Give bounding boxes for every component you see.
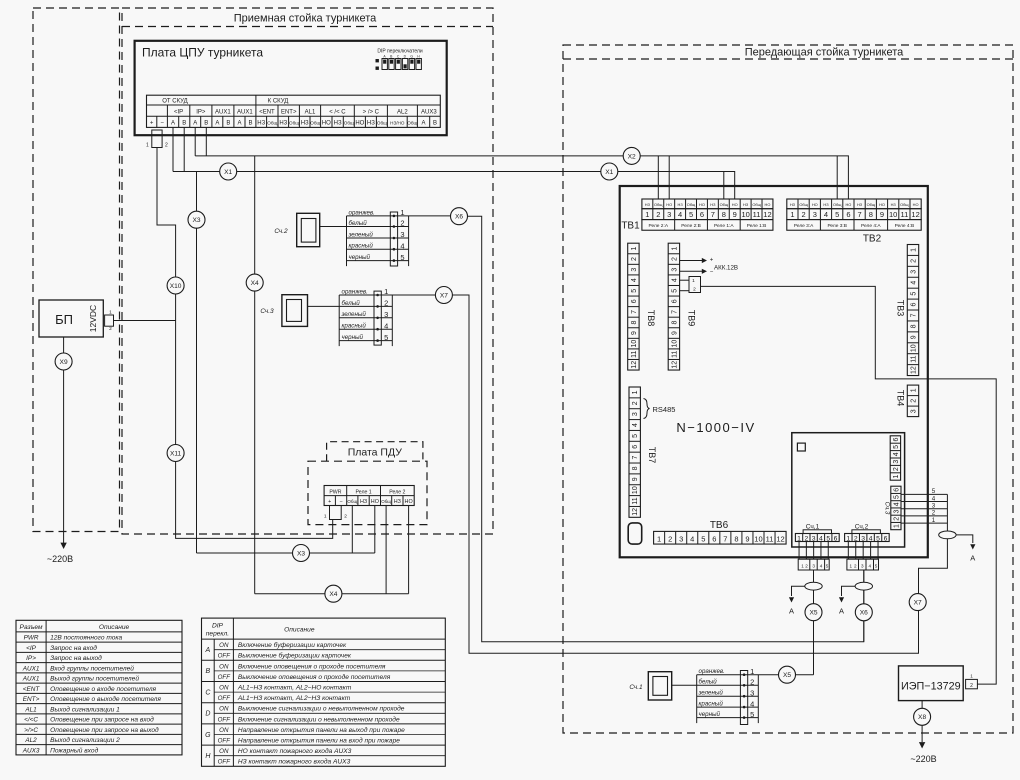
svg-text:5: 5: [826, 563, 829, 568]
svg-text:НЗ: НЗ: [857, 202, 863, 207]
svg-text:5: 5: [911, 292, 918, 296]
svg-text:НЗ: НЗ: [257, 121, 265, 127]
reader interface daughter-board inside controller: [792, 433, 905, 547]
svg-text:1: 1: [324, 514, 327, 520]
svg-text:5: 5: [893, 495, 900, 499]
svg-text:AL1−НЗ контакт, AL2−НО контакт: AL1−НЗ контакт, AL2−НО контакт: [237, 685, 352, 692]
svg-text:A: A: [205, 647, 211, 654]
svg-text:12: 12: [632, 508, 639, 516]
svg-text:Выключение оповещения о проход: Выключение оповещения о проходе посетите…: [238, 673, 391, 681]
svg-text:B: B: [433, 121, 437, 127]
wire: BP 12VDC output to power bus: [114, 320, 176, 322]
svg-text:<IP: <IP: [174, 109, 183, 115]
svg-text:НЗ: НЗ: [334, 121, 342, 127]
svg-text:5: 5: [631, 289, 638, 293]
svg-text:оранжев.: оранжев.: [699, 668, 725, 675]
reader Sch.2 body: [297, 213, 320, 246]
RS485 brace on TB7 pins 2,3: [644, 399, 650, 419]
terminal block of PDU board: [324, 486, 414, 506]
svg-text:1: 1: [400, 208, 404, 217]
svg-text:<ENT: <ENT: [259, 109, 275, 115]
svg-text:К СКУД: К СКУД: [268, 99, 289, 105]
svg-text:Х3: Х3: [297, 550, 305, 557]
wire: CPU IP> terminal A drop: [194, 127, 196, 155]
connector pins 1-2 on TB9 pins 4,5 (battery output): [680, 279, 689, 281]
svg-text:6: 6: [884, 536, 888, 543]
svg-text:9: 9: [733, 210, 737, 219]
svg-text:белый: белый: [349, 220, 368, 227]
wire: PDU relay2 NO to X4 line: [408, 506, 410, 594]
svg-text:4: 4: [869, 563, 872, 568]
svg-text:ON: ON: [219, 727, 229, 734]
svg-text:Реле 3:А: Реле 3:А: [794, 223, 814, 229]
svg-text:AL2: AL2: [24, 737, 37, 744]
svg-text:1: 1: [671, 246, 678, 250]
legend table: DIP switch descriptions: [202, 618, 446, 766]
svg-text:3: 3: [813, 210, 817, 219]
svg-text:−: −: [339, 499, 342, 505]
svg-text:Общ: Общ: [381, 499, 391, 504]
svg-text:G: G: [410, 55, 413, 59]
svg-text:НО: НО: [812, 202, 818, 207]
mains arrow ~220V (receiving side): [60, 543, 66, 549]
wire: X6 cable from reader Sch.2 to controller Sch.2 input: [468, 216, 864, 642]
cable marker X6 (reader side): [451, 208, 468, 225]
svg-text:Запрос на вход: Запрос на вход: [50, 644, 97, 652]
svg-text:DIP: DIP: [212, 623, 224, 630]
svg-text:Сч,2: Сч,2: [855, 524, 869, 531]
svg-text:4: 4: [893, 452, 900, 456]
svg-text:Сч.2: Сч.2: [274, 228, 288, 235]
svg-text:НЗ/НО: НЗ/НО: [390, 121, 405, 126]
svg-text:2: 2: [893, 467, 900, 471]
svg-text:Общ: Общ: [799, 202, 808, 207]
svg-text:Общ: Общ: [344, 121, 354, 126]
svg-text:D: D: [205, 711, 210, 718]
svg-text:12: 12: [631, 361, 638, 369]
connector pins 1-2 of BP output: [105, 315, 114, 326]
svg-text:9: 9: [745, 534, 749, 543]
wires: Sch.1 strip pins 1-5 down to cable connector: [798, 542, 800, 560]
enclosure: Plata PDU (dashed): [308, 461, 427, 524]
svg-text:OFF: OFF: [218, 674, 232, 681]
wire: PDU relay2 Obshch to X4 line: [385, 506, 387, 594]
svg-text:зеленый: зеленый: [341, 311, 367, 318]
svg-text:4: 4: [750, 699, 754, 708]
svg-text:11: 11: [671, 350, 678, 357]
svg-text:1: 1: [109, 310, 112, 316]
cable marker X10: [167, 277, 184, 294]
svg-text:Сч,1: Сч,1: [806, 524, 820, 531]
svg-text:A: A: [193, 121, 197, 127]
svg-text:1: 1: [657, 534, 661, 543]
svg-text:Общ: Общ: [407, 121, 417, 126]
svg-text:Х2: Х2: [628, 153, 636, 160]
wire: reader Sch.1 to cable bundle: [672, 684, 697, 686]
svg-text:4: 4: [632, 423, 639, 427]
svg-text:AL1: AL1: [305, 109, 316, 115]
svg-text:7: 7: [911, 313, 918, 317]
svg-text:НО: НО: [913, 202, 919, 207]
svg-text:Х6: Х6: [860, 610, 868, 617]
title box: Plata PDU: [327, 442, 423, 462]
wire: IEP mains input drop: [921, 701, 923, 742]
svg-text:Вход группы посетителей: Вход группы посетителей: [50, 664, 134, 672]
svg-text:5: 5: [632, 434, 639, 438]
svg-text:Х3: Х3: [192, 217, 200, 224]
terminal block TB2 (relays 3A,3B,4A,4B): [787, 199, 921, 209]
svg-text:10: 10: [754, 534, 762, 543]
terminal block of CPU board: [147, 95, 441, 127]
svg-text:8: 8: [869, 210, 873, 219]
svg-text:6: 6: [834, 536, 838, 543]
svg-text:Включение буферизации карточек: Включение буферизации карточек: [238, 641, 347, 649]
svg-text:белый: белый: [342, 300, 361, 307]
svg-text:Х4: Х4: [251, 280, 259, 287]
svg-text:Х7: Х7: [914, 599, 922, 606]
connector pins 1-2 of IEP: [966, 679, 978, 688]
svg-text:НО: НО: [699, 202, 705, 207]
cable marker X4 (CPU side): [246, 274, 263, 291]
svg-text:11: 11: [632, 497, 639, 504]
wire: X3 cable run: [197, 552, 375, 554]
svg-text:2: 2: [932, 510, 936, 517]
svg-text:2: 2: [802, 210, 806, 219]
svg-text:12: 12: [671, 361, 678, 369]
terminal block TB7: [629, 387, 640, 517]
svg-text:3: 3: [893, 460, 900, 464]
svg-text:6: 6: [631, 299, 638, 303]
wire: branch into TB1 terminal 3: [668, 156, 670, 199]
wire: X6 cable vertical down to long run: [863, 570, 865, 642]
svg-text:>/>C: >/>C: [24, 727, 38, 734]
svg-text:11: 11: [911, 355, 918, 362]
svg-text:10: 10: [889, 210, 897, 219]
shield tap arrow A of X5 cable: [792, 586, 805, 596]
svg-text:12: 12: [776, 534, 784, 543]
svg-text:3: 3: [750, 688, 754, 697]
svg-text:3: 3: [631, 268, 638, 272]
svg-text:9: 9: [631, 331, 638, 335]
svg-text:Направление открытия панели на: Направление открытия панели на вход при …: [238, 737, 400, 745]
svg-text:7: 7: [723, 534, 727, 543]
svg-text:Запрос на выход: Запрос на выход: [50, 654, 102, 662]
svg-text:2: 2: [165, 143, 168, 149]
svg-text:A: A: [237, 121, 241, 127]
svg-text:2: 2: [671, 257, 678, 261]
cable marker X3 (PDU side): [293, 545, 310, 562]
svg-text:Общ: Общ: [752, 202, 761, 207]
svg-text:3: 3: [679, 534, 683, 543]
svg-text:1: 1: [970, 674, 973, 679]
terminal block TB6: [654, 531, 786, 544]
svg-text:7: 7: [671, 310, 678, 314]
svg-text:5: 5: [400, 253, 404, 262]
svg-text:ENT>: ENT>: [281, 109, 297, 115]
svg-text:Общ: Общ: [867, 202, 876, 207]
wire: X1 pair run from CPU to controller TB1: [173, 172, 735, 200]
svg-text:Общ: Общ: [289, 121, 299, 126]
svg-text:9: 9: [671, 331, 678, 335]
terminal block TB8: [628, 243, 639, 370]
svg-text:4: 4: [911, 281, 918, 285]
svg-text:10: 10: [671, 340, 678, 348]
svg-text:Х9: Х9: [60, 359, 68, 366]
svg-text:ON: ON: [219, 706, 229, 713]
svg-text:Х4: Х4: [329, 591, 337, 598]
svg-text:Х11: Х11: [170, 450, 182, 457]
svg-text:RS485: RS485: [653, 405, 676, 414]
svg-text:Х6: Х6: [455, 214, 463, 221]
svg-text:N−1000−IV: N−1000−IV: [676, 420, 755, 435]
enclosure: Priyomnaya stoika turniketa (receiving turnstile stand, dashed box): [122, 8, 493, 534]
svg-text:Х10: Х10: [170, 283, 182, 290]
reader Sch.1 body: [648, 672, 671, 700]
svg-text:3: 3: [861, 563, 864, 568]
svg-text:НО: НО: [322, 121, 331, 127]
svg-text:НЗ: НЗ: [891, 202, 897, 207]
cable marker X3 (CPU side): [188, 211, 205, 228]
svg-text:3: 3: [384, 310, 388, 319]
wire: X5 cable vertical (controller Sch.1 to reader Sch.1): [813, 570, 815, 675]
svg-text:8: 8: [671, 320, 678, 324]
shield tap arrow A of Sch.3 cable: [956, 535, 973, 543]
svg-text:Реле 3:В: Реле 3:В: [827, 223, 847, 229]
svg-text:3: 3: [812, 563, 815, 568]
svg-text:красный: красный: [342, 323, 367, 330]
svg-text:AL1: AL1: [24, 706, 37, 713]
jumper square on daughter-board: [797, 443, 805, 451]
svg-text:2: 2: [911, 399, 918, 403]
svg-text:1: 1: [384, 287, 388, 296]
svg-text:1: 1: [850, 563, 853, 568]
mains arrow ~220V (transmitting side): [919, 742, 925, 748]
wire: CPU <IP terminal B drop: [183, 127, 185, 171]
svg-text:А: А: [789, 607, 794, 616]
svg-text:НО: НО: [666, 202, 672, 207]
svg-text:OFF: OFF: [218, 716, 232, 723]
svg-text:НЗ: НЗ: [710, 202, 716, 207]
svg-text:1: 1: [645, 210, 649, 219]
terminal block TB1 (relays 2A,2B,1A,1B): [642, 199, 773, 209]
svg-text:А: А: [970, 554, 975, 563]
svg-text:белый: белый: [699, 679, 718, 686]
svg-text:Х7: Х7: [440, 292, 448, 299]
svg-text:Общ: Общ: [654, 202, 663, 207]
svg-text:ТВ6: ТВ6: [710, 520, 729, 531]
svg-text:Сч.3: Сч.3: [884, 502, 891, 515]
svg-text:AUX3: AUX3: [421, 109, 437, 115]
svg-text:5: 5: [384, 333, 388, 342]
svg-text:черный: черный: [342, 334, 364, 341]
svg-text:Реле 2: Реле 2: [389, 489, 405, 495]
svg-text:Включение сигнализации о невып: Включение сигнализации о невыполненном п…: [238, 715, 400, 723]
svg-text:1: 1: [911, 388, 918, 392]
svg-text:НЗ: НЗ: [743, 202, 749, 207]
svg-text:12: 12: [911, 366, 918, 374]
svg-text:7: 7: [711, 210, 715, 219]
svg-text:8: 8: [632, 466, 639, 470]
connector J1 (6 pins) on daughter-board right edge: [890, 436, 900, 480]
svg-text:Выключение буферизации карточе: Выключение буферизации карточек: [238, 652, 352, 660]
svg-text:9: 9: [911, 335, 918, 339]
wire: branch down to PDU relay 2 (X4 cable): [254, 156, 256, 594]
svg-text:4: 4: [671, 278, 678, 282]
svg-text:<IP: <IP: [26, 645, 37, 652]
svg-text:Общ: Общ: [720, 202, 729, 207]
svg-text:ТВ8: ТВ8: [646, 310, 656, 327]
svg-text:НЗ: НЗ: [678, 202, 684, 207]
svg-text:4: 4: [893, 502, 900, 506]
svg-text:Реле 1: Реле 1: [356, 489, 372, 495]
svg-text:11: 11: [901, 210, 909, 219]
svg-text:Описание: Описание: [284, 627, 315, 634]
svg-text:8: 8: [722, 210, 726, 219]
cable marker X4 (PDU side): [325, 585, 342, 602]
svg-text:Реле 1:А: Реле 1:А: [714, 223, 734, 229]
svg-text:Оповещение о выходе посетителя: Оповещение о выходе посетителя: [50, 695, 161, 703]
svg-text:4: 4: [678, 210, 682, 219]
svg-text:НЗ: НЗ: [301, 121, 309, 127]
wire: PDU relay1 NO to X3 line: [374, 506, 376, 554]
svg-text:5: 5: [671, 289, 678, 293]
svg-text:Х1: Х1: [224, 169, 232, 176]
svg-text:12: 12: [763, 210, 771, 219]
svg-text:красный: красный: [349, 243, 374, 250]
svg-text:красный: красный: [699, 701, 724, 708]
svg-text:7: 7: [632, 456, 639, 460]
wire: battery 12V from controller to IEP-13729: [701, 286, 997, 684]
svg-text:OFF: OFF: [218, 759, 232, 766]
svg-text:Разъем: Разъем: [20, 624, 43, 631]
board U1: Plata CPU turniketa (CPU board box): [135, 41, 447, 135]
svg-text:3: 3: [911, 270, 918, 274]
svg-text:ON: ON: [219, 748, 229, 755]
title separator line of transmitting stand: [563, 58, 1013, 60]
svg-text:Выход сигнализации 1: Выход сигнализации 1: [50, 705, 120, 713]
svg-text:IP>: IP>: [196, 109, 206, 115]
svg-text:6: 6: [671, 299, 678, 303]
svg-text:B: B: [226, 121, 230, 127]
wire: branch into TB1 terminal 2: [657, 156, 659, 199]
svg-text:2: 2: [631, 257, 638, 261]
svg-text:Общ: Общ: [900, 202, 909, 207]
svg-text:3: 3: [632, 412, 639, 416]
svg-text:6: 6: [893, 437, 900, 441]
svg-text:2: 2: [400, 219, 404, 228]
svg-text:оранжев.: оранжев.: [349, 209, 375, 216]
svg-text:5: 5: [689, 210, 693, 219]
cable marker X9: [55, 353, 72, 370]
svg-text:Передающая стойка турникета: Передающая стойка турникета: [745, 47, 904, 59]
svg-text:1: 1: [790, 210, 794, 219]
wire: CPU power connector down to bus junction: [157, 148, 333, 539]
ferrite ring on Sch.3 cable: [939, 531, 956, 539]
svg-text:6: 6: [632, 445, 639, 449]
svg-text:6: 6: [893, 488, 900, 492]
svg-text:B: B: [182, 121, 186, 127]
svg-text:Общ: Общ: [310, 121, 320, 126]
svg-text:НЗ: НЗ: [360, 499, 367, 505]
svg-text:4: 4: [690, 534, 694, 543]
cable of reader Sch.1 (wire colours, pins 1-5): [696, 675, 698, 723]
svg-text:Х5: Х5: [809, 610, 817, 617]
power supply IEP-13729 box: [899, 666, 964, 701]
svg-text:6: 6: [911, 303, 918, 307]
svg-text:</<C: </<C: [24, 717, 38, 724]
svg-text:2: 2: [668, 534, 672, 543]
svg-text:НО: НО: [765, 202, 771, 207]
terminal block TB4: [907, 385, 918, 417]
svg-text:AUX3: AUX3: [22, 747, 40, 754]
reader Sch.3 body: [282, 295, 308, 327]
svg-text:НО: НО: [355, 121, 364, 127]
svg-text:2: 2: [109, 326, 112, 332]
svg-text:НЗ: НЗ: [823, 202, 829, 207]
svg-text:1: 1: [893, 524, 900, 528]
svg-text:ON: ON: [219, 642, 229, 649]
svg-text:12: 12: [911, 210, 919, 219]
svg-text:AUX1: AUX1: [215, 109, 231, 115]
svg-text:Х8: Х8: [918, 714, 926, 721]
wire: branch into TB1 terminal 8: [723, 172, 725, 200]
svg-text:2: 2: [911, 259, 918, 263]
svg-text:> /> C: > /> C: [363, 109, 380, 115]
svg-text:ТВ9: ТВ9: [687, 310, 697, 327]
cable marker X1 (receiving side): [220, 163, 237, 180]
svg-text:6: 6: [712, 534, 716, 543]
svg-text:11: 11: [753, 210, 761, 219]
svg-text:2: 2: [632, 401, 639, 405]
svg-text:Приемная стойка турникета: Приемная стойка турникета: [234, 13, 377, 25]
svg-text:+: +: [328, 499, 331, 505]
svg-text:9: 9: [632, 477, 639, 481]
svg-text:ТВ3: ТВ3: [896, 300, 906, 317]
svg-text:B: B: [204, 121, 208, 127]
svg-text:НО: НО: [845, 202, 851, 207]
wire: CPU <IP terminal A drop: [172, 127, 174, 171]
svg-text:Выключение сигнализации о невы: Выключение сигнализации о невыполненном …: [238, 705, 405, 713]
svg-text:Плата ЦПУ турникета: Плата ЦПУ турникета: [142, 46, 263, 60]
svg-text:OFF: OFF: [218, 738, 232, 745]
cable marker X6 (controller side): [855, 604, 872, 621]
battery feed arrows AKK.12V from TB9 pins 2,3: [680, 260, 703, 262]
svg-text:3: 3: [911, 409, 918, 413]
svg-text:+: +: [710, 257, 714, 263]
svg-text:8: 8: [911, 324, 918, 328]
svg-text:7: 7: [631, 310, 638, 314]
svg-text:B: B: [248, 121, 252, 127]
svg-text:11: 11: [766, 534, 774, 543]
wire: CPU IP> terminal B drop: [205, 127, 207, 155]
svg-text:оранжев.: оранжев.: [342, 288, 368, 295]
svg-text:1: 1: [692, 278, 695, 284]
connector (rounded) below TB7: [628, 523, 642, 544]
svg-text:IP>: IP>: [26, 655, 36, 662]
svg-text:5: 5: [875, 563, 878, 568]
svg-text:ТВ1: ТВ1: [621, 221, 640, 232]
svg-text:НО контакт пожарного входа AUX: НО контакт пожарного входа AUX3: [238, 747, 352, 755]
wire: Sch.3 cable bus down to ferrite: [946, 494, 948, 531]
wire: X7 cable from reader Sch.3 to controller Sch.3 input: [452, 295, 947, 653]
wire: X2 pair run from CPU to controller TB1/TB2: [195, 156, 848, 199]
svg-text:НО: НО: [405, 499, 413, 505]
svg-text:перекл.: перекл.: [206, 631, 229, 638]
ferrite ring on X6 cable: [855, 582, 872, 590]
svg-text:Включение оповещения о проходе: Включение оповещения о проходе посетител…: [238, 662, 386, 670]
svg-text:Общ: Общ: [377, 121, 387, 126]
svg-text:A: A: [215, 121, 219, 127]
